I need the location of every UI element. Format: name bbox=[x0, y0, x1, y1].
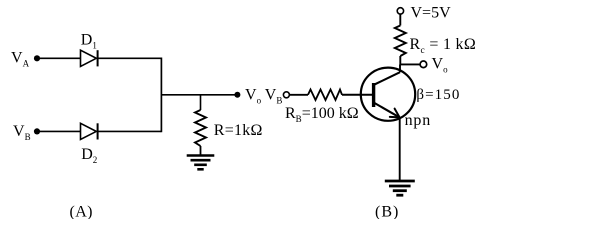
svg-text:(B): (B) bbox=[375, 203, 399, 219]
svg-text:npn: npn bbox=[405, 112, 431, 129]
svg-text:β=150: β=150 bbox=[416, 87, 460, 103]
svg-text:Rc = 1 kΩ: Rc = 1 kΩ bbox=[410, 36, 477, 56]
svg-text:R=1kΩ: R=1kΩ bbox=[214, 122, 263, 139]
svg-text:V=5V: V=5V bbox=[411, 5, 452, 22]
svg-text:(A): (A) bbox=[70, 203, 93, 219]
